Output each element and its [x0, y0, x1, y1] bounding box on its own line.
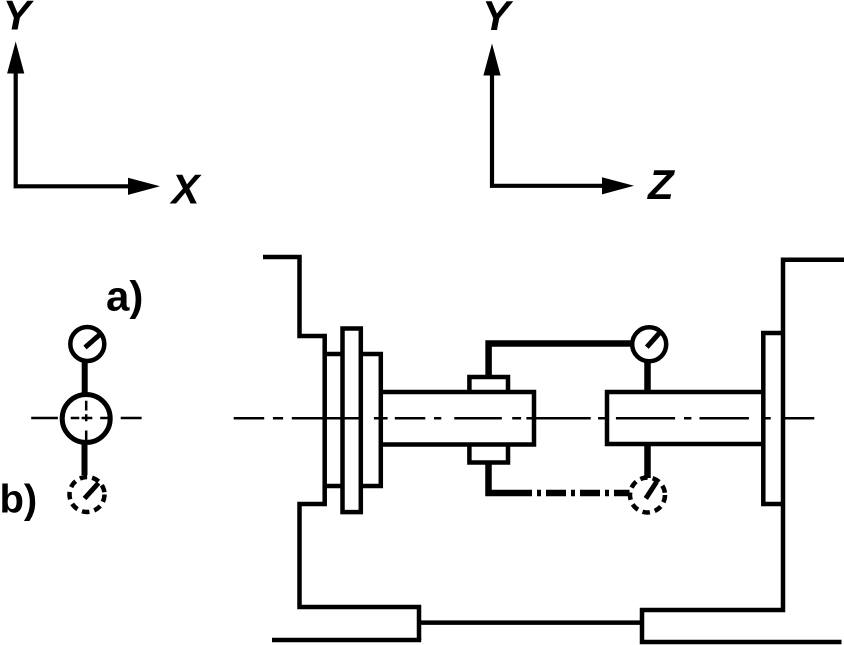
svg-text:a): a) [106, 273, 143, 320]
faceplate plate 2 (tall) [343, 329, 361, 513]
clamp upper on mandrel [469, 377, 508, 392]
shaft end circle (end view) [62, 395, 110, 443]
svg-text:b): b) [0, 478, 37, 522]
centerline (end view, horizontal) [31, 417, 141, 420]
headstock outline [263, 257, 419, 640]
faceplate plate 3 [361, 354, 381, 486]
faceplate washer plate 1 [325, 354, 343, 486]
svg-text:Y: Y [3, 0, 35, 38]
needle of top dial [647, 331, 661, 347]
svg-text:X: X [170, 166, 203, 213]
headstock foot bottom [272, 638, 421, 643]
mandrel shaft (left test bar) [381, 392, 534, 445]
centerline (end view, vertical) [85, 401, 88, 442]
needle of dial b [85, 483, 99, 499]
clamp lower on mandrel [469, 445, 508, 463]
dial indicator a (end view, top) [70, 327, 104, 361]
lower indicator arm (dashed link) [512, 490, 630, 497]
stem of bottom dial [644, 444, 651, 478]
svg-text:Y: Y [482, 0, 514, 39]
tailstock body [642, 260, 844, 642]
axis arrows Z-Y (right coordinate system) [492, 72, 607, 186]
arrowhead Z (right axes, right) [602, 177, 634, 194]
tailstock quill [763, 333, 783, 504]
stem of dial b [82, 444, 88, 475]
upper indicator arm (solid link) [489, 344, 631, 378]
dial indicator b (end view, bottom, dashed) [70, 477, 105, 512]
stem of top dial [644, 361, 651, 393]
arrowhead Y (left axes, up) [7, 42, 24, 74]
stem of dial a [82, 361, 88, 393]
arrowhead Y (right axes, up) [483, 44, 500, 76]
lower indicator arm corner [489, 463, 513, 494]
dial indicator (side view, bottom, dashed) [630, 478, 665, 513]
main centerline (side view) [234, 417, 815, 420]
axis arrows X-Y (left coordinate system) [16, 70, 133, 186]
lathe bed line [419, 620, 642, 625]
tailstock test bar (right shaft) [607, 392, 763, 444]
needle of bottom dial [646, 482, 657, 499]
dial indicator (side view, top, solid) [632, 327, 666, 361]
needle of dial a [85, 334, 101, 348]
arrowhead X (left axes, right) [128, 178, 160, 195]
svg-text:Z: Z [647, 161, 675, 208]
